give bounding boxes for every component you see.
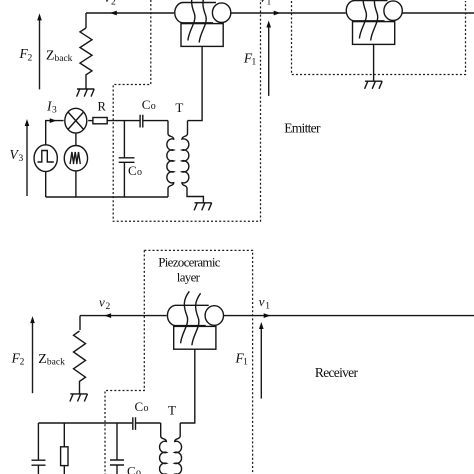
svg-text:C: C — [128, 163, 137, 178]
svg-text:o: o — [136, 468, 141, 474]
svg-text:T: T — [168, 403, 176, 418]
svg-text:Emitter: Emitter — [284, 120, 321, 135]
svg-text:C: C — [142, 97, 151, 112]
svg-text:R: R — [98, 100, 107, 114]
svg-text:back: back — [55, 54, 73, 64]
svg-text:2: 2 — [106, 302, 111, 312]
svg-text:Z: Z — [46, 49, 55, 64]
svg-text:C: C — [127, 464, 136, 474]
svg-text:1: 1 — [243, 358, 248, 368]
svg-text:3: 3 — [19, 154, 24, 164]
svg-text:Z: Z — [38, 352, 47, 367]
svg-text:1: 1 — [265, 302, 270, 312]
svg-text:Receiver: Receiver — [315, 365, 359, 380]
svg-text:layer: layer — [177, 270, 201, 285]
svg-text:2: 2 — [111, 0, 116, 8]
svg-text:3: 3 — [52, 106, 57, 116]
svg-text:v: v — [105, 0, 111, 5]
svg-text:1: 1 — [267, 0, 272, 8]
svg-text:v: v — [99, 295, 105, 310]
svg-text:Piezoceramic: Piezoceramic — [158, 255, 221, 270]
svg-text:2: 2 — [28, 54, 33, 64]
svg-text:o: o — [151, 101, 156, 112]
svg-text:C: C — [135, 399, 144, 414]
svg-text:o: o — [137, 167, 142, 178]
svg-text:2: 2 — [20, 358, 25, 368]
svg-text:v: v — [259, 294, 265, 309]
svg-text:back: back — [47, 358, 65, 368]
svg-text:T: T — [175, 100, 183, 115]
svg-text:1: 1 — [252, 57, 257, 67]
svg-text:o: o — [144, 403, 149, 414]
